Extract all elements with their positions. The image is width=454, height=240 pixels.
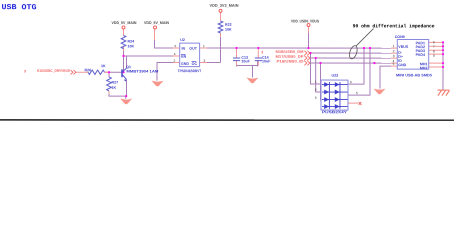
svg-text:M18/USB0_DM: M18/USB0_DM — [276, 50, 304, 54]
svg-text:3: 3 — [261, 50, 263, 54]
svg-text:10uF: 10uF — [262, 59, 271, 63]
svg-text:7: 7 — [433, 45, 435, 49]
svg-text:10K: 10K — [225, 28, 232, 32]
svg-text:GND: GND — [181, 62, 189, 66]
svg-text:VDD_3V3_MAIN: VDD_3V3_MAIN — [210, 4, 239, 8]
svg-text:MINI USB-AB SMD5: MINI USB-AB SMD5 — [396, 73, 432, 77]
svg-text:10K: 10K — [128, 44, 135, 48]
svg-text:OUT: OUT — [189, 47, 197, 51]
svg-text:9: 9 — [433, 54, 435, 58]
svg-text:VDD_5V_MAIN: VDD_5V_MAIN — [144, 21, 169, 25]
svg-text:2: 2 — [393, 49, 395, 53]
svg-text:6: 6 — [433, 40, 435, 44]
svg-text:TPS2041BDBVT: TPS2041BDBVT — [178, 69, 202, 73]
svg-text:CON9: CON9 — [395, 35, 405, 39]
svg-text:U23: U23 — [331, 74, 338, 78]
svg-text:M17/USB0_DP: M17/USB0_DP — [276, 55, 305, 59]
svg-text:3: 3 — [24, 69, 26, 73]
svg-text:PAD4: PAD4 — [416, 53, 425, 57]
svg-text:6: 6 — [175, 44, 177, 48]
svg-text:GND: GND — [398, 63, 406, 67]
svg-text:P16/USB0_ID: P16/USB0_ID — [276, 60, 303, 64]
svg-text:5: 5 — [356, 91, 358, 95]
svg-text:U2: U2 — [180, 38, 185, 42]
svg-text:4: 4 — [174, 52, 176, 56]
svg-text:90 ohm differential impedance: 90 ohm differential impedance — [353, 23, 435, 29]
svg-text:1: 1 — [393, 44, 395, 48]
svg-text:R26: R26 — [84, 68, 91, 72]
svg-text:3: 3 — [203, 59, 205, 63]
svg-text:USB OTG: USB OTG — [2, 4, 37, 12]
svg-text:VDD_5V_MAIN: VDD_5V_MAIN — [112, 21, 137, 25]
svg-text:3: 3 — [315, 96, 317, 100]
svg-text:R27: R27 — [111, 80, 118, 84]
svg-text:MMBT3904 1AM: MMBT3904 1AM — [126, 70, 158, 74]
svg-text:1: 1 — [315, 80, 317, 84]
svg-text:R22: R22 — [225, 23, 232, 27]
svg-text:5: 5 — [393, 62, 395, 66]
svg-text:Q1: Q1 — [126, 65, 131, 69]
svg-text:2: 2 — [173, 59, 175, 63]
svg-text:IN: IN — [182, 47, 186, 51]
svg-text:3: 3 — [393, 54, 395, 58]
svg-text:10uF: 10uF — [241, 59, 250, 63]
svg-text:K16/USBC_DRVVBUS: K16/USBC_DRVVBUS — [37, 69, 71, 73]
svg-text:6: 6 — [350, 80, 352, 84]
svg-text:2: 2 — [315, 88, 317, 92]
svg-text:R24: R24 — [128, 40, 135, 44]
svg-text:1: 1 — [203, 44, 205, 48]
svg-text:1K: 1K — [111, 86, 116, 90]
svg-text:MH2: MH2 — [420, 66, 428, 70]
svg-text:PUSB2X4Y: PUSB2X4Y — [322, 110, 348, 114]
svg-text:VBUS: VBUS — [398, 45, 409, 49]
svg-text:EN: EN — [181, 55, 186, 59]
svg-text:VDD_USB0_VBUS: VDD_USB0_VBUS — [291, 19, 319, 23]
svg-text:OC: OC — [192, 62, 198, 66]
svg-text:1K: 1K — [101, 64, 106, 68]
